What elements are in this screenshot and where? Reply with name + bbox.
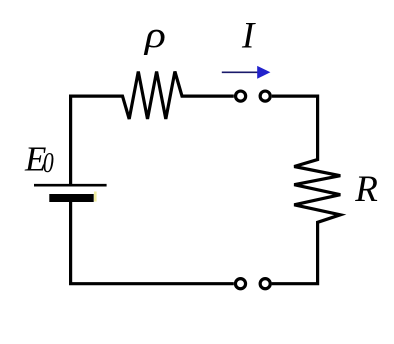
svg-text:ρ: ρ bbox=[144, 15, 166, 56]
svg-text:0: 0 bbox=[43, 148, 54, 179]
svg-text:I: I bbox=[241, 16, 256, 57]
svg-text:R: R bbox=[354, 169, 378, 210]
